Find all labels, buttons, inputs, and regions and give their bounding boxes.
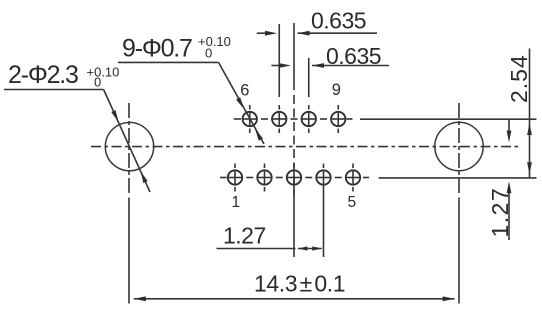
svg-text:+0.10: +0.10 <box>198 34 231 49</box>
svg-text:0.635: 0.635 <box>311 8 366 34</box>
mounting hole H1 (left, Phi2.3) <box>105 122 153 170</box>
leader 2-Phi2.3 <box>4 61 150 192</box>
extension line from H2 down to 14.3 dimension <box>458 198 460 304</box>
svg-text:1: 1 <box>232 194 241 211</box>
svg-text:0: 0 <box>205 46 212 61</box>
extension line from H1 down to 14.3 dimension <box>128 198 130 304</box>
svg-text:14.3±0.1: 14.3±0.1 <box>254 271 345 297</box>
svg-text:0: 0 <box>94 75 101 90</box>
vertical centerline of H1 <box>128 103 130 196</box>
svg-text:1.27: 1.27 <box>223 223 266 249</box>
svg-text:6: 6 <box>240 82 249 100</box>
pin 4 <box>316 164 331 186</box>
extension line pin8 vertical <box>308 58 310 97</box>
pin 8 <box>301 105 316 133</box>
extension line pin7 vertical <box>278 24 280 97</box>
dimension 1.27 bottom <box>217 223 322 251</box>
svg-text:1.27: 1.27 <box>487 187 513 238</box>
pin 2 <box>257 164 272 192</box>
dimension 1.27 right <box>487 119 513 240</box>
pin 5 <box>346 164 361 192</box>
pin 3 <box>287 164 302 186</box>
bottom row centerline dashes <box>220 177 369 179</box>
central vertical centerline <box>293 23 295 196</box>
pin 9 <box>331 105 346 133</box>
dimension 0.635 first <box>257 8 377 36</box>
vertical centerline of H2 <box>458 103 460 196</box>
pin 1 <box>228 164 243 192</box>
svg-text:0.635: 0.635 <box>326 43 381 69</box>
top row centerline dashes <box>234 118 353 120</box>
pin 6 <box>242 105 257 133</box>
pin 7 <box>272 105 287 133</box>
dimension 2.54 right <box>506 49 532 178</box>
extension line top row right <box>360 118 537 120</box>
horizontal centerline <box>91 146 519 148</box>
svg-text:9-Φ0.7: 9-Φ0.7 <box>122 35 192 63</box>
extension line bottom row right <box>379 177 537 179</box>
dimension 0.635 second <box>271 43 389 69</box>
mounting hole H2 (right, Phi2.3) <box>435 122 483 170</box>
svg-text:2.54: 2.54 <box>506 54 532 103</box>
svg-text:9: 9 <box>332 81 341 99</box>
svg-text:+0.10: +0.10 <box>87 65 120 80</box>
dimension 14.3 +-0.1 bottom <box>134 271 455 302</box>
extension line pin4 bottom <box>323 186 325 258</box>
leader 9-Phi0.7 <box>118 34 264 144</box>
svg-text:2-Φ2.3: 2-Φ2.3 <box>8 61 78 89</box>
svg-text:5: 5 <box>348 194 357 211</box>
extension line pin3 bottom <box>293 186 295 258</box>
